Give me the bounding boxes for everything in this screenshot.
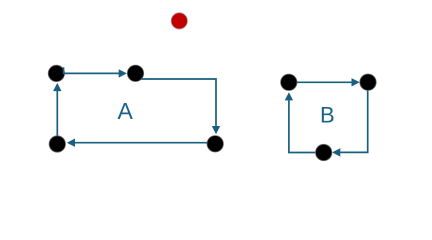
arrowhead into node B1 xyxy=(285,92,293,100)
node A3 (bottom-right dot of A) xyxy=(207,136,223,152)
svg-text:B: B xyxy=(320,102,335,127)
arrowhead into node B2 xyxy=(352,78,360,86)
red dot xyxy=(171,13,187,29)
arrowhead into node A4 xyxy=(67,139,75,147)
wire A3 to A4 (bottom edge of A) xyxy=(75,142,207,144)
node B2 (top-right dot of B) xyxy=(360,74,376,90)
node B3 (bottom-middle dot of B) xyxy=(316,144,332,160)
wire A4 to A1 (left edge of A) xyxy=(56,91,58,136)
arrowhead into node B3 xyxy=(332,148,340,156)
node A1 (top-left dot of A) xyxy=(48,65,64,81)
wire A2 to A3 (right edge of A) xyxy=(141,79,216,127)
node B1 (top-left dot of B) xyxy=(281,74,297,90)
wire B2 to B3 (right and bottom edge of B) xyxy=(340,91,368,153)
arrowhead into node A1 xyxy=(53,83,61,91)
wire B3 to B1 (bottom-left and left edge of B) xyxy=(289,100,316,152)
arrowhead into node A3 xyxy=(212,126,220,134)
arrowhead into node A2 xyxy=(119,69,127,77)
wire B1 to B2 (top edge of B) xyxy=(297,81,352,83)
wire A1 to A2 (top edge of A, elbow stub then horizontal, drawn over node A1) xyxy=(64,67,120,73)
svg-text:A: A xyxy=(118,98,134,124)
node A2 (top-middle dot of A) xyxy=(127,65,143,81)
node A4 (bottom-left dot of A) xyxy=(49,136,65,152)
